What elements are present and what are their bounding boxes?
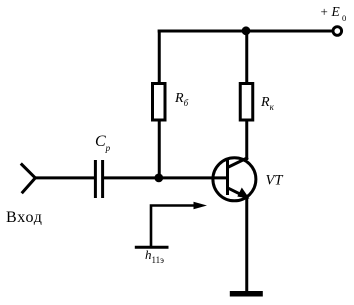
emitter stroke with arrow: [228, 188, 247, 197]
svg-text:Вход: Вход: [6, 209, 43, 226]
wire: emitter to ground: [245, 196, 248, 293]
bottom bar: [135, 246, 169, 249]
base bar: [226, 160, 229, 195]
wire: top supply rail: [158, 30, 332, 33]
arrowhead: [194, 202, 208, 210]
input terminal fork: [21, 164, 36, 194]
transistor VT (NPN): [213, 158, 256, 201]
wire: input to capacitor: [34, 176, 94, 179]
svg-text:VT: VT: [266, 173, 284, 189]
wire: Rb bottom lead down to base node: [158, 120, 161, 179]
collector stroke: [228, 158, 249, 168]
body circle: [213, 158, 256, 201]
ground: [230, 291, 263, 297]
resistor Rk: [240, 84, 253, 121]
svg-text:E: E: [331, 4, 341, 19]
capacitor Cp: [95, 160, 102, 198]
wire: Rk top lead: [245, 31, 248, 84]
arrow line: [151, 206, 196, 248]
svg-text:+: +: [321, 4, 328, 19]
svg-text:0: 0: [342, 13, 346, 23]
wire: Rb top lead: [158, 30, 161, 85]
terminal +E0 (open circle): [333, 27, 342, 36]
resistor Rb: [153, 84, 166, 121]
junction: base node (Rb joins base wire): [154, 174, 163, 183]
wire: Rk bottom lead / collector wire: [245, 120, 248, 160]
junction: supply rail / collector node: [242, 26, 251, 35]
input resistance symbol h11e: arrow into base: [135, 202, 207, 248]
wire: capacitor to transistor base: [104, 176, 227, 179]
